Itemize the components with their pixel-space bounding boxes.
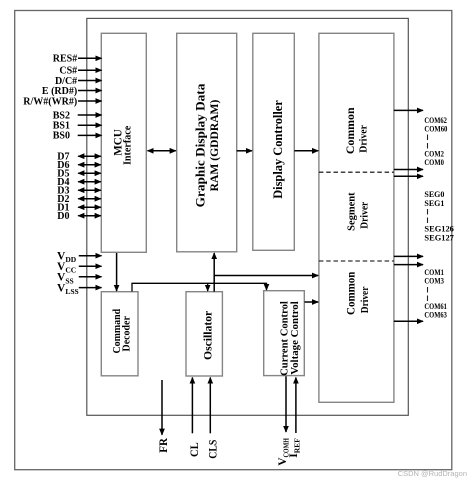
wire SEG arrow pair upper <box>394 169 423 171</box>
wire Current Control to driver <box>305 301 319 303</box>
wire GDDRAM to Display Controller <box>237 150 252 152</box>
svg-text:COM63: COM63 <box>424 310 447 320</box>
dashed divider 1 <box>319 171 394 173</box>
wire MCU to GDDRAM bidirectional <box>148 150 176 152</box>
wire MCU to Command Decoder <box>116 253 118 291</box>
svg-text:RES#: RES# <box>53 54 77 65</box>
dashes between SEG1 and SEG126 <box>427 209 429 215</box>
svg-text:BS0: BS0 <box>53 131 70 142</box>
wire BS2 arrow <box>78 114 102 116</box>
wire VCC arrow <box>79 265 102 267</box>
wire COM arrow pair lower <box>394 264 423 266</box>
svg-text:CLS: CLS <box>207 440 219 459</box>
wire CS# arrow <box>78 69 102 71</box>
svg-text:Display Controller: Display Controller <box>271 100 285 199</box>
wire D2 arrow <box>78 198 101 200</box>
svg-text:Voltage Control: Voltage Control <box>289 301 301 375</box>
wire COM arrow pair upper <box>394 255 423 257</box>
wire D/C# arrow <box>78 80 102 82</box>
svg-text:FR: FR <box>158 437 170 452</box>
svg-text:CL: CL <box>189 442 201 457</box>
svg-text:Driver: Driver <box>359 202 371 229</box>
block driver (Common/Segment/Common) <box>319 33 394 402</box>
svg-text:Segment: Segment <box>345 192 357 231</box>
wire D5 arrow <box>78 172 101 174</box>
svg-text:CSDN @RudDragon: CSDN @RudDragon <box>398 469 467 478</box>
dashed divider 2 <box>319 260 394 262</box>
block Oscillator <box>186 292 222 376</box>
wire RES# arrow <box>78 57 102 59</box>
wire VDD arrow <box>79 255 102 257</box>
svg-text:SEG1: SEG1 <box>424 198 444 208</box>
wire CL input <box>191 378 193 434</box>
svg-text:SEG127: SEG127 <box>424 233 454 243</box>
svg-text:E (RD#): E (RD#) <box>42 86 77 97</box>
wire BS1 arrow <box>78 124 102 126</box>
svg-text:Common: Common <box>343 107 357 154</box>
wire D4 arrow <box>78 181 101 183</box>
wire SEG arrow pair lower <box>394 175 423 177</box>
svg-text:Oscillator: Oscillator <box>201 310 215 360</box>
block Display Controller <box>253 33 294 250</box>
dashes between COM60 and COM2 <box>427 135 429 141</box>
svg-text:Interface: Interface <box>123 125 134 165</box>
wire CLS input <box>209 378 211 434</box>
wire IREF input <box>295 378 297 434</box>
wire VSS arrow <box>79 276 102 278</box>
inner chip boundary box <box>87 18 409 415</box>
wire bus to Oscillator <box>207 283 209 291</box>
block Command Decoder <box>101 292 138 376</box>
wire E (RD#) arrow <box>78 90 102 92</box>
wire R/W#(WR#) arrow <box>78 100 102 102</box>
wire D6 arrow <box>78 164 101 166</box>
wire COM top arrow <box>394 109 423 111</box>
wire VCOMH output <box>285 376 287 432</box>
wire BS0 arrow <box>78 134 102 136</box>
wire D3 arrow <box>78 189 101 191</box>
wire D0 arrow <box>78 215 101 217</box>
block GDDRAM <box>177 33 237 252</box>
wire Command Decoder bus up <box>132 283 267 291</box>
wire oscillator line to driver <box>214 275 318 277</box>
svg-text:Graphic Display Data: Graphic Display Data <box>194 83 208 207</box>
svg-text:COM60: COM60 <box>424 124 447 134</box>
svg-text:Decoder: Decoder <box>120 316 132 351</box>
wire VLSS arrow <box>79 287 102 289</box>
block MCU Interface <box>101 33 146 252</box>
svg-text:Common: Common <box>346 271 358 315</box>
svg-text:COM0: COM0 <box>424 157 444 167</box>
svg-text:D0: D0 <box>57 211 69 222</box>
dashes between COM3 and COM61 <box>427 287 429 293</box>
wire Display Controller to driver <box>294 150 318 152</box>
svg-text:Driver: Driver <box>359 287 371 314</box>
svg-text:COM3: COM3 <box>424 276 444 286</box>
wire D7 arrow <box>78 155 101 157</box>
wire COM bottom arrow <box>394 320 423 322</box>
wire D1 arrow <box>78 206 101 208</box>
block Current Control Voltage Control <box>264 291 305 376</box>
svg-text:RAM (GDDRAM): RAM (GDDRAM) <box>207 100 221 192</box>
svg-text:Driver: Driver <box>357 125 369 153</box>
wire FR output <box>161 380 163 435</box>
svg-text:R/W#(WR#): R/W#(WR#) <box>23 96 77 107</box>
wire Oscillator to GDDRAM <box>213 253 215 292</box>
